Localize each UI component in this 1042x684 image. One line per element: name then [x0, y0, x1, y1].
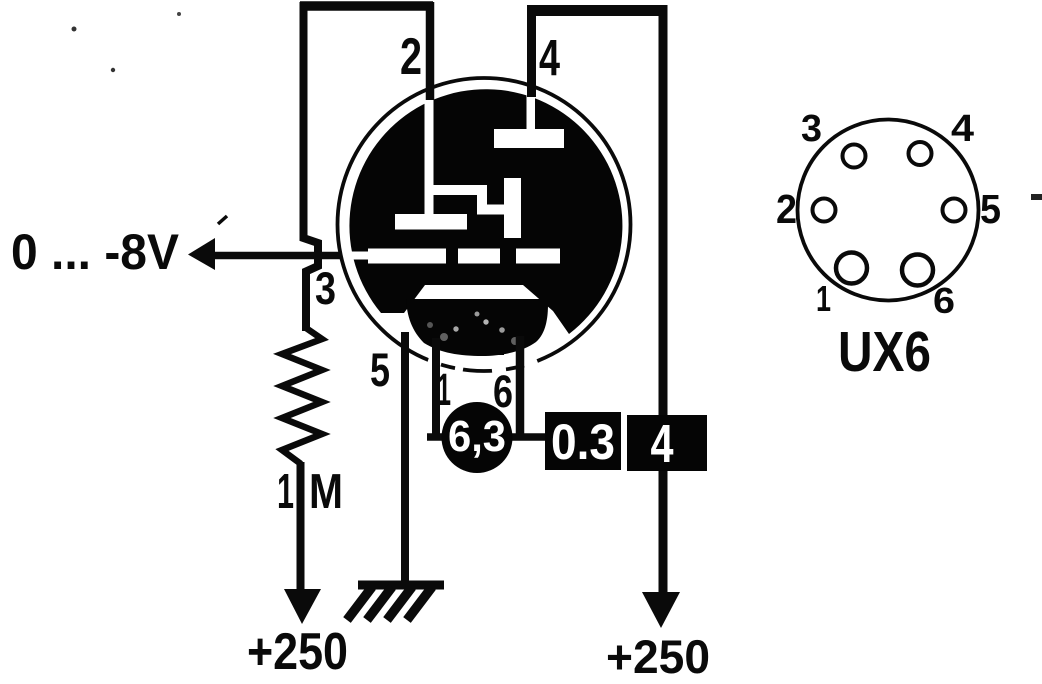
pin label 3: [315, 263, 336, 314]
wire: heater horizontal: [427, 433, 546, 441]
arrow to +250 (right): [642, 592, 680, 628]
label +250 (left): [247, 623, 348, 681]
wire: resistor to +250: [297, 462, 305, 592]
UX6 pin label 5: [980, 186, 1001, 232]
pin label 2: [400, 28, 422, 86]
svg-text:4: 4: [539, 29, 560, 86]
UX6 pin label 4: [951, 108, 974, 150]
anode current badge 4: [627, 414, 707, 474]
wire: grid bias horizontal: [211, 252, 341, 260]
wire: pin 4 anode lead: [527, 5, 536, 97]
pin label 1: [437, 364, 451, 415]
arrow to +250 (left): [284, 589, 321, 624]
internal vertical bar electrode: [504, 178, 521, 238]
UX6 pin hole 1: [836, 253, 867, 284]
grid-2 lead (pin 2) inside tube: [425, 99, 434, 215]
grid-2 horizontal bar electrode: [395, 214, 467, 230]
svg-text:0.3: 0.3: [551, 414, 615, 470]
UX6 pin label 6: [933, 280, 955, 321]
UX6 pin hole 6: [902, 255, 933, 286]
pin label 6: [493, 366, 513, 417]
svg-text:+250: +250: [247, 623, 348, 681]
wire: top-left horizontal: [300, 1, 433, 11]
wire: top-right horizontal: [528, 5, 664, 16]
svg-text:3: 3: [315, 263, 336, 314]
svg-text:5: 5: [980, 186, 1001, 232]
UX6 pin hole 3: [843, 145, 866, 168]
label 0 ... -8V: [11, 224, 180, 280]
svg-text:6: 6: [933, 280, 955, 321]
wire: left vertical (grid return): [304, 2, 319, 331]
svg-text:M: M: [309, 465, 343, 519]
svg-text:0 ... -8V: 0 ... -8V: [11, 224, 180, 280]
wire: heater pin 6 lead: [516, 336, 525, 437]
tube V1 envelope circle: [338, 78, 631, 371]
UX6 pin label 2: [776, 186, 797, 232]
pin label 4: [539, 29, 560, 86]
UX6 pin label 1: [816, 278, 831, 319]
scan specks: [72, 12, 1042, 200]
svg-text:6,3: 6,3: [448, 412, 506, 461]
pin label 5: [370, 343, 390, 396]
heater current badge 0.3: [545, 412, 621, 470]
svg-text:5: 5: [370, 343, 390, 396]
svg-text:1: 1: [277, 465, 294, 519]
svg-text:2: 2: [400, 28, 422, 86]
UX6 pin hole 2: [813, 199, 836, 222]
heater voltage badge 6,3: [442, 402, 513, 473]
svg-text:2: 2: [776, 186, 797, 232]
ground: [347, 585, 444, 620]
svg-text:+250: +250: [606, 630, 710, 683]
internal strap connector: [433, 190, 506, 210]
resistor value 1M: [277, 465, 343, 519]
UX6 pin hole 5: [943, 199, 966, 222]
UX6 base diagram circle: [798, 120, 979, 301]
tube V1 inner black body: [349, 89, 622, 334]
svg-text:1: 1: [816, 278, 831, 319]
arrow to grid bias source: [188, 216, 227, 270]
caption UX6: [838, 320, 931, 384]
resistor R1 zigzag: [282, 328, 322, 464]
UX6 pin label 3: [801, 108, 822, 150]
tube base dome: [406, 299, 548, 356]
svg-text:3: 3: [801, 108, 822, 150]
wire: anode supply vertical: [659, 5, 668, 594]
wire: heater pin 1 lead: [432, 338, 440, 437]
svg-text:1: 1: [437, 364, 451, 415]
wire: cathode pin 5 to ground: [401, 332, 409, 585]
wire: pin 2 lead: [426, 2, 435, 100]
label +250 (right): [606, 630, 710, 683]
control grid (pin 3) dashed electrode: [351, 249, 560, 264]
anode plate bar (pin 4) inside tube: [494, 95, 564, 148]
UX6 pin hole 4: [909, 142, 932, 165]
svg-text:UX6: UX6: [838, 320, 931, 384]
svg-text:4: 4: [651, 414, 674, 474]
svg-text:4: 4: [951, 108, 974, 150]
